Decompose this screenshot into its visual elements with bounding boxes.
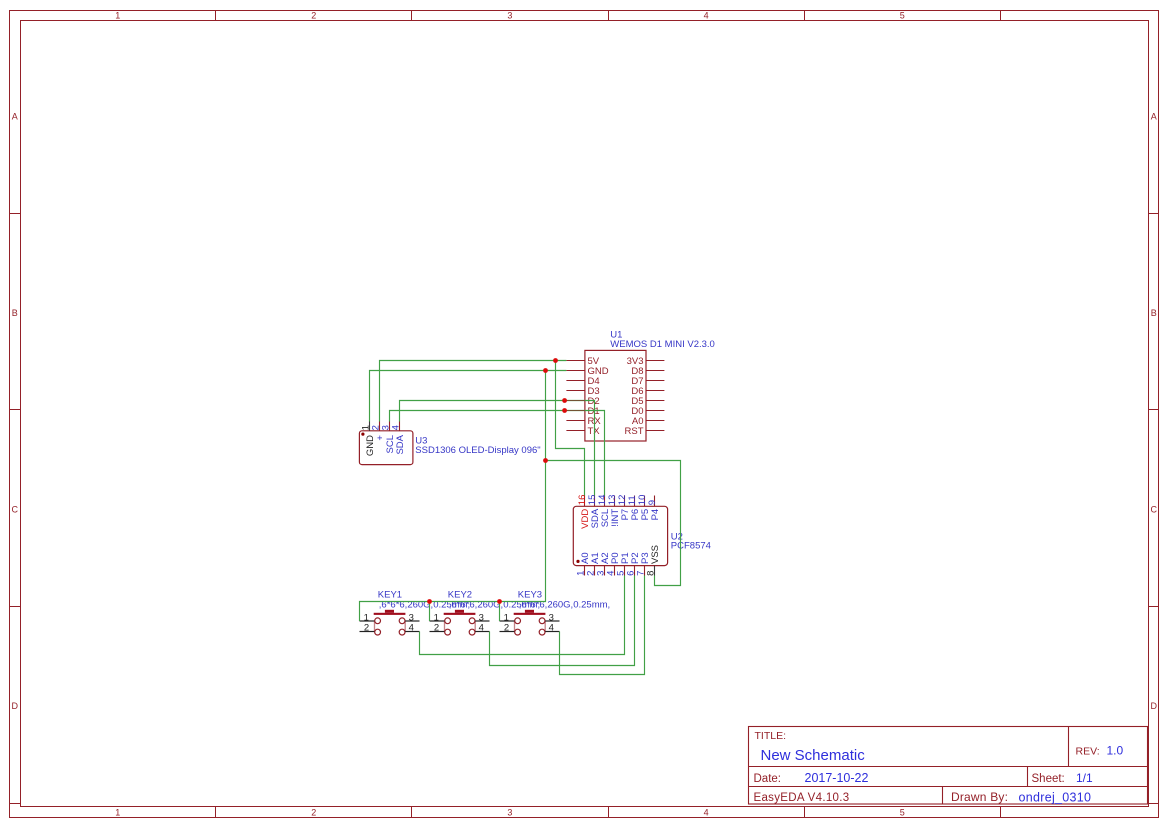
U3 pin number 3 xyxy=(381,425,392,430)
U2 pin name P7 xyxy=(620,509,631,521)
U1 value label WEMOS D1 MINI V2.3.0 xyxy=(610,339,715,350)
KEY1 reference label xyxy=(378,589,402,600)
U2 pin number 14 xyxy=(597,495,608,506)
U2 pin name P6 xyxy=(630,509,641,521)
svg-text:Date:: Date: xyxy=(754,773,782,785)
wire GND drop to KEY3 pin1 xyxy=(499,602,501,622)
U2 pin 2 (A1) bottom stub xyxy=(594,566,596,576)
U1 pin RST (right stub) xyxy=(625,426,665,437)
U1 D1 pin stub overlap xyxy=(566,410,585,412)
U1 pin D0 (right stub) xyxy=(631,406,664,417)
wire KEY1 pin4 to U2 pin5 P1 xyxy=(420,576,625,655)
svg-text:2017-10-22: 2017-10-22 xyxy=(805,771,869,785)
U1 pin TX (left stub) xyxy=(566,426,600,437)
svg-text:5: 5 xyxy=(900,807,905,817)
U2 pin number 10 xyxy=(637,495,648,506)
U2 pin 14 (SCL) top stub xyxy=(604,496,606,507)
U2 pin 1 (A0) bottom stub xyxy=(584,566,586,576)
U2 pin name SCL xyxy=(600,509,611,527)
svg-text:SDA: SDA xyxy=(395,434,406,454)
U2 pin number 15 xyxy=(587,495,598,506)
junction dot KEY3 pin1 branch xyxy=(497,599,502,604)
pushbutton KEY1 symbol xyxy=(374,610,406,635)
svg-text:C: C xyxy=(1151,504,1158,514)
U3 pin number 1 xyxy=(361,425,372,430)
U1 pin D3 (left stub) xyxy=(566,386,599,397)
KEY3 pin 2 lead xyxy=(500,622,515,633)
U2 PCF8574 body xyxy=(573,506,667,565)
U1 pin D5 (right stub) xyxy=(631,396,664,407)
U2 pin 6 (P2) bottom stub xyxy=(634,566,636,576)
U2 pin 4 (P0) bottom stub xyxy=(614,566,616,576)
svg-text:New Schematic: New Schematic xyxy=(761,747,866,764)
U2 pin 12 (P7) top stub xyxy=(624,496,626,507)
U2 pin number 1 xyxy=(576,571,587,576)
svg-text:9: 9 xyxy=(647,500,658,505)
U1 pin D1 (left stub) xyxy=(566,406,599,417)
KEY2 pin 3 lead xyxy=(475,612,489,623)
U1 pin GND (left stub) xyxy=(566,366,608,377)
U2 pin 11 (P6) top stub xyxy=(634,496,636,507)
U1 pin D2 (left stub) xyxy=(566,396,599,407)
U3 pin name SDA xyxy=(395,434,406,454)
U2 pin number 5 xyxy=(616,571,627,576)
U3 pin name GND xyxy=(365,435,376,456)
svg-text:4: 4 xyxy=(704,10,709,20)
svg-text:3: 3 xyxy=(507,10,512,20)
U2 pin number 9 xyxy=(647,500,658,505)
svg-text:VSS: VSS xyxy=(650,545,661,564)
op-amp U1 WEMOS D1 MINI V2.3.0 body xyxy=(585,350,646,441)
svg-text:2: 2 xyxy=(364,622,369,633)
wire D2/SDA: U1.D2 to U3 pin4 SDA and U2 pin15 SDA xyxy=(400,401,595,496)
wire D1/SCL: U1.D1 to U3 pin3 SCL and U2 pin14 SCL xyxy=(390,411,605,496)
svg-text:2: 2 xyxy=(311,807,316,817)
U2 pin number 4 xyxy=(606,571,617,576)
U2 value label PCF8574 xyxy=(671,541,711,552)
U2 pin name P5 xyxy=(640,509,651,521)
U2 pin name P4 xyxy=(650,509,661,521)
svg-text:4: 4 xyxy=(479,622,484,633)
U2 first-pin marker dot xyxy=(576,560,579,563)
U3 pin 4 (SDA) stub xyxy=(399,422,401,431)
svg-text:A: A xyxy=(1151,112,1157,122)
U2 pin name A1 xyxy=(590,552,601,564)
U1 pin RX (left stub) xyxy=(566,416,601,427)
junction dot U1.D2 node xyxy=(562,398,567,403)
svg-text:2: 2 xyxy=(434,622,439,633)
svg-text:Drawn By:: Drawn By: xyxy=(951,790,1008,804)
U2 pin name VSS xyxy=(650,545,661,564)
U2 pin name !INT xyxy=(610,509,621,527)
U2 pin name P1 xyxy=(620,552,631,564)
U1 pin D7 (right stub) xyxy=(631,376,664,387)
wire GND branch to U2 pin8 VSS xyxy=(546,461,681,586)
svg-text:TX: TX xyxy=(588,426,601,437)
U1 pin D4 (left stub) xyxy=(566,376,599,387)
U3 pin name + xyxy=(375,435,386,441)
svg-text:4: 4 xyxy=(409,622,414,633)
U2 pin number 16 xyxy=(577,495,588,506)
svg-text:A: A xyxy=(12,112,18,122)
KEY1 pin 3 lead xyxy=(405,612,419,623)
KEY2 pin 4 lead xyxy=(475,622,489,633)
U1 D2 pin stub overlap xyxy=(566,400,585,402)
KEY1 value label xyxy=(379,600,470,611)
U2 pin name SDA xyxy=(590,508,601,528)
U3 pin number 2 xyxy=(371,425,382,430)
U2 pin 3 (A2) bottom stub xyxy=(604,566,606,576)
KEY2 value label xyxy=(449,600,540,611)
svg-text:1: 1 xyxy=(115,10,120,20)
svg-text:WEMOS D1 MINI V2.3.0: WEMOS D1 MINI V2.3.0 xyxy=(610,339,715,350)
U3 pin 3 (SCL) stub xyxy=(389,422,391,431)
U3 pin 1 (GND) stub xyxy=(369,422,371,431)
U2 pin name A0 xyxy=(580,552,591,564)
U2 pin number 2 xyxy=(586,571,597,576)
svg-text:B: B xyxy=(1151,308,1157,318)
wire 5V branch to U2 pin16 VDD xyxy=(556,361,585,496)
svg-text:C: C xyxy=(11,504,18,514)
svg-text:Sheet:: Sheet: xyxy=(1032,773,1065,785)
U2 pin 15 (SDA) top stub xyxy=(594,496,596,507)
svg-text:ondrej_0310: ondrej_0310 xyxy=(1019,791,1092,805)
wire 5V: U1.5V to U3 pin2 (+) xyxy=(380,361,567,422)
svg-text:REV:: REV: xyxy=(1076,746,1100,758)
svg-text:5: 5 xyxy=(900,10,905,20)
U2 reference label xyxy=(671,531,683,542)
U2 pin name P2 xyxy=(630,552,641,564)
KEY3 pin 4 lead xyxy=(545,622,559,633)
U3 pin 2 (+) stub xyxy=(379,422,381,431)
junction dot U1.D1 node xyxy=(562,408,567,413)
svg-text:1/1: 1/1 xyxy=(1076,771,1093,785)
KEY3 pin 3 lead xyxy=(545,612,559,623)
svg-text:4: 4 xyxy=(549,622,554,633)
junction dot GND branch xyxy=(543,368,548,373)
U2 pin 7 (P3) bottom stub xyxy=(644,566,646,576)
svg-text:P4: P4 xyxy=(650,509,661,521)
wire GND drop to KEY2 pin1 xyxy=(429,602,431,622)
KEY3 value label xyxy=(519,600,610,611)
svg-text:8: 8 xyxy=(646,571,657,576)
U2 pin 16 (VDD) top stub xyxy=(584,496,586,507)
svg-text:TITLE:: TITLE: xyxy=(755,730,787,742)
KEY2 pin 2 lead xyxy=(430,622,445,633)
U2 pin 13 (!INT) top stub xyxy=(614,496,616,507)
U3 reference label xyxy=(415,435,427,446)
svg-text:D: D xyxy=(1151,701,1158,711)
U2 pin name A2 xyxy=(600,552,611,564)
junction dot KEY2 pin1 branch xyxy=(427,599,432,604)
svg-text:1: 1 xyxy=(115,807,120,817)
U2 pin name P3 xyxy=(640,552,651,564)
U2 pin number 13 xyxy=(607,495,618,506)
U2 pin 8 (VSS) bottom stub xyxy=(654,566,656,576)
svg-text:D: D xyxy=(11,701,18,711)
KEY1 pin 4 lead xyxy=(405,622,419,633)
KEY3 reference label xyxy=(518,589,542,600)
pushbutton KEY3 symbol xyxy=(514,610,546,635)
svg-text:B: B xyxy=(12,308,18,318)
wire KEY3 pin4 to U2 pin7 P3 xyxy=(560,576,645,675)
U1 reference label xyxy=(610,329,622,340)
U1 pin D6 (right stub) xyxy=(631,386,664,397)
KEY2 reference label xyxy=(448,589,472,600)
U3 SSD1306 OLED-Display body xyxy=(359,431,413,465)
wire KEY2 pin4 to U2 pin6 P2 xyxy=(490,576,635,666)
wire GND: U1.GND to U3 pin1 GND xyxy=(370,371,567,422)
KEY2 pin 1 lead xyxy=(430,612,445,623)
U2 pin name P0 xyxy=(610,552,621,564)
U1 pin D8 (right stub) xyxy=(631,366,664,377)
svg-text:PCF8574: PCF8574 xyxy=(671,541,711,552)
svg-text:2: 2 xyxy=(311,10,316,20)
pushbutton KEY2 symbol xyxy=(444,610,476,635)
KEY1 pin 1 lead xyxy=(360,612,375,623)
KEY3 pin 1 lead xyxy=(500,612,515,623)
KEY1 pin 2 lead xyxy=(360,622,375,633)
U2 pin 5 (P1) bottom stub xyxy=(624,566,626,576)
svg-text:4: 4 xyxy=(391,425,402,430)
U3 value label SSD1306 OLED-Display 096&quot; xyxy=(415,445,540,456)
U2 pin name VDD xyxy=(580,509,591,529)
U2 pin number 6 xyxy=(626,571,637,576)
svg-text:3: 3 xyxy=(507,807,512,817)
U1 pin 5V (left stub) xyxy=(566,356,599,367)
junction dot GND/VSS branch xyxy=(543,458,548,463)
U2 pin number 12 xyxy=(617,495,628,506)
U2 pin number 7 xyxy=(636,571,647,576)
svg-text:RST: RST xyxy=(625,426,644,437)
svg-text:EasyEDA V4.10.3: EasyEDA V4.10.3 xyxy=(754,792,850,804)
U2 pin 10 (P5) top stub xyxy=(644,496,646,507)
U2 pin number 3 xyxy=(596,571,607,576)
U1 pin A0 (right stub) xyxy=(632,416,665,427)
svg-text:SSD1306 OLED-Display 096": SSD1306 OLED-Display 096" xyxy=(415,445,540,456)
svg-text:4: 4 xyxy=(704,807,709,817)
U2 pin number 11 xyxy=(627,495,638,505)
U3 first-pin marker dot xyxy=(361,433,364,436)
junction dot 5V/VDD branch xyxy=(553,358,558,363)
U2 pin number 8 xyxy=(646,571,657,576)
U1 pin 3V3 (right stub) xyxy=(627,356,665,367)
svg-text:2: 2 xyxy=(504,622,509,633)
wire GND branch down to keys row xyxy=(360,371,546,622)
U3 pin name SCL xyxy=(385,435,396,453)
U2 pin 9 (P4) top stub xyxy=(654,496,656,507)
U3 pin number 4 xyxy=(391,425,402,430)
svg-text:1.0: 1.0 xyxy=(1107,744,1124,758)
